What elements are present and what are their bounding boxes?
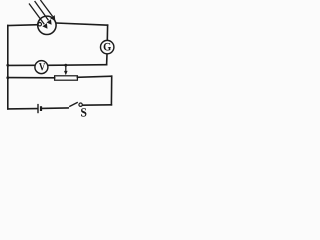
phototube PT1 envelope — [38, 16, 56, 34]
rheostat R body — [55, 76, 78, 80]
battery cell: long positive plate — [37, 104, 39, 113]
wire bottom-right (corner to switch contact) — [82, 104, 111, 106]
wire voltmeter row right segment — [48, 64, 107, 67]
label V — [39, 63, 45, 70]
wire rheostat right to outer corner — [77, 76, 111, 77]
wire top-right from phototube to right corner — [56, 23, 107, 25]
wire right vertical below G — [106, 54, 108, 65]
light ray 1 — [29, 4, 48, 29]
wire bottom-left (battery to left corner) — [8, 108, 37, 110]
node at left wire / voltmeter row — [6, 64, 9, 67]
switch S contact ring — [79, 103, 82, 106]
wire bottom-middle (switch to battery) — [42, 107, 68, 110]
switch S lever — [69, 102, 78, 106]
galvanometer G — [101, 40, 114, 53]
phototube anode ring — [38, 23, 41, 26]
battery cell: short negative plate — [40, 106, 42, 111]
wire voltmeter row left segment — [8, 64, 36, 66]
label S — [81, 108, 86, 116]
wire rheostat row left segment — [8, 77, 55, 79]
wire right vertical upper (corner to G) — [106, 25, 108, 40]
light ray 3 — [40, 0, 55, 21]
wire left vertical — [7, 26, 9, 109]
node wiper tap on voltmeter row — [64, 64, 67, 67]
light ray 2 — [35, 1, 52, 25]
voltmeter V — [35, 61, 48, 74]
wire top-left to phototube — [8, 24, 39, 27]
node at left wire / rheostat row — [6, 76, 9, 79]
rheostat wiper arrow — [64, 66, 68, 75]
label G — [104, 43, 111, 51]
wire right vertical lower — [110, 76, 112, 105]
